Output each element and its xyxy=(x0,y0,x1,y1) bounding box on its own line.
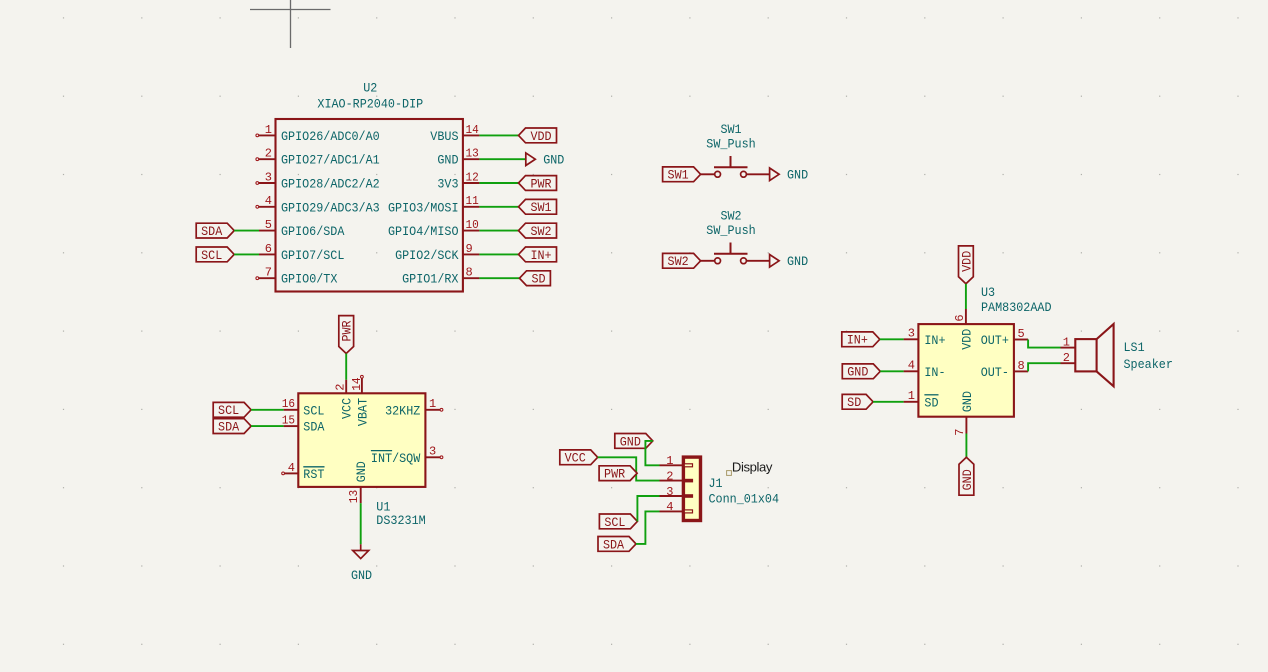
amplifier U3 body xyxy=(918,324,1014,417)
svg-text:1: 1 xyxy=(429,397,436,411)
global label SCL (U1) xyxy=(213,402,251,418)
svg-text:SW2: SW2 xyxy=(720,208,741,223)
wire SDA to U1 pin15 xyxy=(251,425,284,427)
svg-text:GPIO6/SDA: GPIO6/SDA xyxy=(281,224,345,239)
U2 pin 7 (GPIO0/TX) xyxy=(256,266,338,287)
global label SDA (U2 pin5) xyxy=(196,223,234,239)
global label PWR xyxy=(519,176,557,192)
global label VDD xyxy=(519,128,557,144)
svg-text:VBUS: VBUS xyxy=(430,129,458,144)
svg-text:SW_Push: SW_Push xyxy=(706,223,755,238)
svg-text:U3: U3 xyxy=(981,285,995,300)
svg-text:GPIO26/ADC0/A0: GPIO26/ADC0/A0 xyxy=(281,129,380,144)
svg-text:RST: RST xyxy=(303,467,324,482)
U2 pin 5 (GPIO6/SDA) xyxy=(259,218,345,239)
svg-text:13: 13 xyxy=(466,147,479,161)
svg-text:GND: GND xyxy=(543,153,564,168)
svg-text:GND: GND xyxy=(960,391,975,412)
svg-text:15: 15 xyxy=(282,414,295,428)
svg-text:4: 4 xyxy=(666,500,673,514)
U1 pin 14 (VBAT) xyxy=(350,375,371,426)
wire U1 GND down xyxy=(360,503,362,544)
global label VCC (J1) xyxy=(560,450,598,466)
svg-text:3: 3 xyxy=(429,445,436,459)
svg-text:6: 6 xyxy=(953,314,967,321)
global label GND (U3 IN-) xyxy=(842,364,880,380)
U2 pin 1 (GPIO26/ADC0/A0) xyxy=(256,123,380,144)
speaker LS1 body xyxy=(1075,324,1113,386)
speaker LS1 pin 1 xyxy=(1061,335,1076,349)
svg-text:GND: GND xyxy=(354,461,369,482)
mcu U2 body xyxy=(276,119,463,292)
U2 pin 12 (3V3) xyxy=(437,170,479,191)
global label IN+ (U3) xyxy=(842,332,880,348)
svg-text:PAM8302AAD: PAM8302AAD xyxy=(981,300,1052,315)
svg-text:IN+: IN+ xyxy=(847,333,868,348)
svg-text:SCL: SCL xyxy=(604,515,625,530)
U3 pin 5 (OUT+) xyxy=(981,327,1028,348)
global label SW1 xyxy=(519,199,557,215)
wire U3 OUT+ to speaker xyxy=(1028,340,1060,348)
wire U2 pin11 to SW1 label xyxy=(479,206,518,208)
wire PWR to U1 VCC xyxy=(345,354,347,380)
svg-text:SCL: SCL xyxy=(201,248,222,263)
global label GND (below U3) xyxy=(959,457,975,495)
svg-text:2: 2 xyxy=(1063,351,1070,365)
global label VDD (above U3) xyxy=(959,246,975,284)
svg-text:SD: SD xyxy=(531,272,545,287)
rtc U1 body xyxy=(298,393,425,487)
wire SD to U3 pin1 xyxy=(873,401,904,403)
svg-text:SD: SD xyxy=(924,395,938,410)
wire U3 OUT- to speaker xyxy=(1028,363,1060,371)
wire SCL to U1 pin16 xyxy=(251,409,284,411)
U3 pin 1 (SD) xyxy=(904,389,939,410)
svg-text:4: 4 xyxy=(265,194,272,208)
U1 pin 15 (SDA) xyxy=(282,414,325,435)
J1 pin 2 xyxy=(660,469,694,483)
svg-text:3: 3 xyxy=(265,170,272,184)
svg-text:7: 7 xyxy=(265,266,272,280)
U2 pin 2 (GPIO27/ADC1/A1) xyxy=(256,147,380,168)
svg-text:1: 1 xyxy=(265,123,272,137)
wire SDA to U2 pin5 xyxy=(234,230,259,232)
svg-text:SDA: SDA xyxy=(218,420,239,435)
svg-text:GPIO1/RX: GPIO1/RX xyxy=(402,272,459,287)
svg-text:GPIO28/ADC2/A2: GPIO28/ADC2/A2 xyxy=(281,177,380,192)
svg-text:GND: GND xyxy=(437,153,458,168)
svg-text:2: 2 xyxy=(334,384,348,391)
origin crosshair xyxy=(250,0,331,48)
svg-text:6: 6 xyxy=(265,242,272,256)
svg-text:GPIO29/ADC3/A3: GPIO29/ADC3/A3 xyxy=(281,200,380,215)
wire SCL to J1 pin3 xyxy=(637,496,659,521)
svg-text:INT/SQW: INT/SQW xyxy=(371,451,421,466)
U2 pin 11 (GPIO3/MOSI) xyxy=(388,194,479,215)
svg-text:GPIO3/MOSI: GPIO3/MOSI xyxy=(388,200,459,215)
svg-text:IN+: IN+ xyxy=(924,333,945,348)
svg-text:GND: GND xyxy=(787,254,808,269)
svg-text:VCC: VCC xyxy=(565,451,586,466)
svg-text:DS3231M: DS3231M xyxy=(376,513,425,528)
svg-text:SDA: SDA xyxy=(201,224,222,239)
svg-text:VDD: VDD xyxy=(959,329,974,350)
svg-text:Speaker: Speaker xyxy=(1124,357,1173,372)
svg-text:9: 9 xyxy=(466,242,473,256)
svg-text:4: 4 xyxy=(908,359,915,373)
wire GND to U3 pin4 xyxy=(880,370,903,372)
U2 pin 3 (GPIO28/ADC2/A2) xyxy=(256,170,380,191)
power symbol GND (SW2) xyxy=(770,254,809,269)
svg-text:1: 1 xyxy=(908,389,915,403)
global label IN+ xyxy=(519,247,557,263)
svg-text:SCL: SCL xyxy=(218,403,239,418)
global label SD (U3) xyxy=(842,394,873,410)
svg-text:14: 14 xyxy=(466,123,479,137)
global label SW2 (switch side) xyxy=(663,253,701,269)
svg-text:LS1: LS1 xyxy=(1124,340,1145,355)
svg-text:1: 1 xyxy=(666,454,673,468)
wire GND to J1 pin1 xyxy=(645,441,659,465)
svg-text:SCL: SCL xyxy=(303,403,324,418)
wire VDD to U3 pin6 xyxy=(965,284,967,309)
power symbol GND (below U1) xyxy=(351,544,372,583)
wire U2 pin13 to GND xyxy=(479,158,525,160)
svg-text:GND: GND xyxy=(620,434,641,449)
svg-text:11: 11 xyxy=(466,194,479,208)
svg-text:IN+: IN+ xyxy=(530,248,551,263)
svg-text:VCC: VCC xyxy=(340,398,355,419)
U2 pin 10 (GPIO4/MISO) xyxy=(388,218,479,239)
wire VCC to J1 pin2 xyxy=(598,457,660,480)
wire U2 pin10 to SW2 label xyxy=(479,230,518,232)
svg-text:GND: GND xyxy=(847,365,868,380)
svg-text:5: 5 xyxy=(1018,327,1025,341)
svg-text:OUT-: OUT- xyxy=(981,365,1009,380)
global label SD xyxy=(520,271,551,287)
U3 pin 7 (GND) xyxy=(953,391,975,436)
text anchor square xyxy=(727,471,732,476)
J1 pin 3 xyxy=(660,485,694,499)
global label SCL (U2 pin6) xyxy=(196,247,234,263)
global label SDA (J1) xyxy=(598,537,636,553)
svg-text:GND: GND xyxy=(960,469,975,490)
svg-text:2: 2 xyxy=(265,147,272,161)
svg-text:SW1: SW1 xyxy=(720,122,741,137)
svg-text:5: 5 xyxy=(265,218,272,232)
speaker LS1 pin 2 xyxy=(1061,351,1076,365)
svg-text:7: 7 xyxy=(953,429,967,436)
J1 pin 1 xyxy=(660,454,693,468)
svg-text:GND: GND xyxy=(351,568,372,583)
svg-text:14: 14 xyxy=(350,378,364,391)
global label PWR (J1) xyxy=(599,466,637,482)
svg-text:2: 2 xyxy=(666,469,673,483)
svg-text:VBAT: VBAT xyxy=(356,398,371,426)
svg-text:3: 3 xyxy=(666,485,673,499)
svg-text:SW2: SW2 xyxy=(530,224,551,239)
U3 pin 8 (OUT-) xyxy=(981,359,1028,380)
svg-text:8: 8 xyxy=(466,266,473,280)
svg-text:IN-: IN- xyxy=(924,365,945,380)
svg-text:3: 3 xyxy=(908,327,915,341)
svg-text:GPIO0/TX: GPIO0/TX xyxy=(281,272,338,287)
wire IN+ to U3 pin3 xyxy=(880,338,904,340)
wire U2 pin9 to IN+ label xyxy=(479,253,518,255)
svg-text:OUT+: OUT+ xyxy=(981,333,1009,348)
U1 pin 4 (RST) xyxy=(282,461,325,482)
U2 pin 8 (GPIO1/RX) xyxy=(402,266,479,287)
U2 pin 9 (GPIO2/SCK) xyxy=(395,242,479,263)
svg-text:Display: Display xyxy=(732,459,773,474)
svg-text:SD: SD xyxy=(847,395,861,410)
svg-text:SW1: SW1 xyxy=(668,168,689,183)
svg-text:J1: J1 xyxy=(709,476,723,491)
power symbol GND (U2 pin13) xyxy=(526,153,565,168)
global label GND (J1) xyxy=(615,434,653,450)
svg-text:GPIO27/ADC1/A1: GPIO27/ADC1/A1 xyxy=(281,153,380,168)
U3 pin 6 (VDD) xyxy=(953,309,974,350)
wire SDA to J1 pin4 xyxy=(636,511,660,544)
svg-text:PWR: PWR xyxy=(340,320,355,341)
svg-text:SW_Push: SW_Push xyxy=(706,137,755,152)
U2 pin 6 (GPIO7/SCL) xyxy=(259,242,344,263)
wire SCL to U2 pin6 xyxy=(234,253,259,255)
power symbol GND (SW1) xyxy=(770,168,809,183)
global label PWR (above U1) xyxy=(339,316,355,354)
wire U2 pin14 to VDD label xyxy=(479,134,518,136)
svg-text:Conn_01x04: Conn_01x04 xyxy=(709,492,780,507)
svg-text:1: 1 xyxy=(1063,335,1070,349)
svg-text:SW2: SW2 xyxy=(668,254,689,269)
wire U3 GND down xyxy=(965,434,967,458)
wire U2 pin12 to PWR label xyxy=(479,182,518,184)
svg-text:XIAO-RP2040-DIP: XIAO-RP2040-DIP xyxy=(317,97,423,112)
global label SW1 (switch side) xyxy=(663,167,701,183)
svg-text:SDA: SDA xyxy=(303,420,324,435)
svg-text:13: 13 xyxy=(347,490,361,503)
switch SW1 (SW_Push) xyxy=(701,122,770,177)
svg-text:4: 4 xyxy=(288,461,295,475)
U1 pin 2 (VCC) xyxy=(334,380,355,419)
svg-text:PWR: PWR xyxy=(530,176,551,191)
svg-text:U2: U2 xyxy=(363,81,377,96)
svg-text:3V3: 3V3 xyxy=(437,177,458,192)
svg-text:GPIO4/MISO: GPIO4/MISO xyxy=(388,224,459,239)
svg-text:SW1: SW1 xyxy=(530,200,551,215)
connector J1 body xyxy=(683,457,700,520)
U3 pin 4 (IN-) xyxy=(904,359,946,380)
global label SDA (U1) xyxy=(213,419,251,435)
svg-text:32KHZ: 32KHZ xyxy=(385,403,420,418)
J1 pin 4 xyxy=(660,500,693,514)
U1 pin 16 (SCL) xyxy=(282,397,325,418)
U1 pin 3 (INT/SQW) xyxy=(371,445,443,466)
global label SW2 xyxy=(519,223,557,239)
svg-text:10: 10 xyxy=(466,218,479,232)
svg-text:VDD: VDD xyxy=(530,129,551,144)
svg-text:16: 16 xyxy=(282,397,295,411)
U2 pin 14 (VBUS) xyxy=(430,123,479,144)
svg-text:SDA: SDA xyxy=(603,537,624,552)
svg-text:VDD: VDD xyxy=(959,251,974,272)
U3 pin 3 (IN+) xyxy=(904,327,946,348)
global label SCL (J1) xyxy=(599,514,637,530)
svg-text:GPIO7/SCL: GPIO7/SCL xyxy=(281,248,344,263)
svg-text:PWR: PWR xyxy=(604,467,625,482)
wire U2 pin8 to SD label xyxy=(479,277,519,279)
svg-text:GND: GND xyxy=(787,168,808,183)
U2 pin 4 (GPIO29/ADC3/A3) xyxy=(256,194,380,215)
switch SW2 (SW_Push) xyxy=(701,208,770,263)
U1 pin 13 (GND) xyxy=(347,461,369,503)
svg-text:GPIO2/SCK: GPIO2/SCK xyxy=(395,248,459,263)
U2 pin 13 (GND) xyxy=(437,147,479,168)
svg-text:12: 12 xyxy=(466,170,479,184)
svg-text:8: 8 xyxy=(1018,359,1025,373)
U1 pin 1 (32KHZ) xyxy=(385,397,443,418)
